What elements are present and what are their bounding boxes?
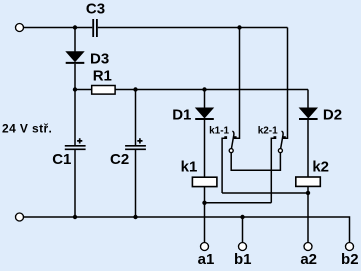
svg-text:D2: D2 — [323, 106, 342, 123]
diode D1 — [195, 108, 214, 119]
svg-text:k1-1: k1-1 — [209, 126, 229, 137]
label plus C2 — [137, 138, 142, 143]
contact k2-1 pivot — [278, 149, 282, 153]
wire b1 drop — [242, 217, 244, 243]
wire D3 anode — [74, 28, 76, 53]
contact k1-1 moving arm — [231, 131, 234, 149]
wire C1 bottom — [74, 150, 76, 217]
wire k1-1 pivot down — [231, 153, 280, 171]
contact k2-1 left fixed terminal — [271, 136, 276, 203]
wire D1 anode — [204, 90, 206, 109]
capacitor C1 — [65, 146, 86, 150]
wire D2 cathode to k2 coil — [307, 120, 309, 178]
node junction rail / C2 — [133, 87, 137, 91]
node junction k1 bottom / cross link — [202, 201, 206, 205]
svg-text:24 V stř.: 24 V stř. — [2, 121, 52, 135]
svg-text:b2: b2 — [341, 251, 359, 268]
wire k1 coil bottom to a1 — [204, 187, 206, 243]
contact k2-1 right fixed terminal — [283, 136, 286, 139]
wire top rail right (C3 to k2-1 drop) — [98, 27, 288, 29]
node junction rail / C1 — [73, 87, 77, 91]
wire top rail left (input to C3) — [24, 27, 93, 29]
svg-text:D1: D1 — [172, 106, 191, 123]
svg-text:k1: k1 — [181, 159, 198, 176]
svg-text:D3: D3 — [90, 50, 109, 67]
wire k2 coil bottom to a2 — [307, 186, 309, 242]
relay coil k1 — [192, 177, 217, 186]
wire C2 top — [135, 90, 137, 146]
capacitor C2 — [125, 146, 146, 150]
wire drop to k2-1 right contact — [284, 28, 287, 139]
terminal a2 — [304, 243, 312, 251]
terminal input bottom-left — [16, 213, 24, 221]
wire drop to k1-1 right contact — [235, 28, 239, 139]
wire D3 cathode to R1 rail — [74, 64, 76, 90]
terminal input top-left — [16, 24, 24, 32]
wire bottom bus — [24, 217, 350, 243]
terminal a1 — [201, 243, 209, 251]
diode D3 — [66, 52, 85, 63]
contact k2-1 moving arm — [281, 131, 284, 149]
svg-text:k2: k2 — [312, 159, 329, 176]
node junction bus / C1 — [73, 215, 77, 219]
svg-text:R1: R1 — [93, 68, 112, 85]
wire D2 anode (rail corner) — [307, 90, 309, 109]
node junction top rail / k1-1 branch — [237, 25, 241, 29]
svg-text:a2: a2 — [300, 251, 317, 268]
svg-text:C2: C2 — [110, 151, 129, 168]
wire cross link k1 bottom to k2-1 left contact — [205, 202, 272, 204]
node junction top rail / D3 — [73, 25, 77, 29]
contact k1-1 pivot — [229, 149, 233, 153]
terminal b2 — [346, 243, 354, 251]
node junction bus / b1 — [240, 215, 244, 219]
svg-text:b1: b1 — [234, 251, 252, 268]
svg-text:k2-1: k2-1 — [258, 126, 278, 137]
relay coil k2 — [296, 177, 321, 186]
node junction k2 bottom / cross link — [306, 191, 310, 195]
svg-text:C3: C3 — [86, 1, 105, 18]
node junction bus / C2 — [133, 215, 137, 219]
node junction rail / D1 — [202, 87, 206, 91]
wire D1 cathode to k1 coil — [204, 120, 206, 179]
wire C2 bottom — [135, 150, 137, 217]
wire cross link k1-1 left contact to k2 bottom — [222, 192, 308, 194]
diode D2 — [299, 108, 318, 119]
capacitor C3 — [93, 19, 97, 37]
label plus C1 — [77, 138, 82, 143]
resistor R1 — [92, 86, 115, 95]
terminal b1 — [239, 243, 247, 251]
svg-text:a1: a1 — [198, 251, 215, 268]
contact k1-1 right fixed terminal — [234, 136, 237, 139]
contact k1-1 left fixed terminal — [222, 136, 227, 193]
wire R1 rail — [75, 89, 308, 91]
svg-text:C1: C1 — [52, 151, 71, 168]
wire C1 top — [74, 90, 76, 146]
